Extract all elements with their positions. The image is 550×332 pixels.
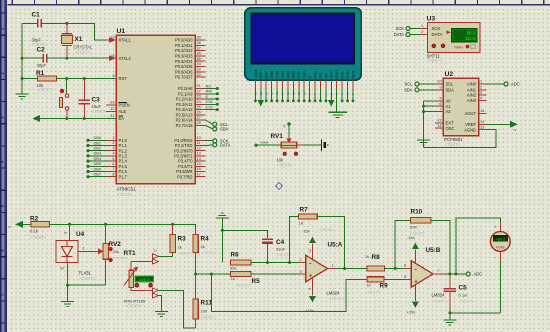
U1 pin P3.4 14 <box>178 156 205 164</box>
svg-text:<TEXT>: <TEXT> <box>365 290 381 295</box>
svg-text:9: 9 <box>112 73 114 78</box>
U5:A pin 2 stub <box>299 257 306 263</box>
svg-text:<TEXT>: <TEXT> <box>202 250 218 255</box>
shunt regulator U4 TL431 <box>56 224 96 281</box>
sensor U3 SHT11 <box>427 16 481 64</box>
svg-text:PSEN: PSEN <box>119 103 130 108</box>
svg-text:ref: ref <box>60 267 64 271</box>
svg-text:<TEXT>: <TEXT> <box>459 299 475 304</box>
resistor R9 <box>365 277 388 295</box>
junction R3 top on rail <box>171 223 174 226</box>
junction U4 ground node <box>66 284 69 287</box>
svg-text:CS1: CS1 <box>206 99 214 104</box>
svg-text:4: 4 <box>308 288 312 290</box>
svg-text:27: 27 <box>197 115 201 120</box>
svg-text:GND: GND <box>334 70 339 79</box>
svg-text:DB5: DB5 <box>274 71 279 79</box>
U2 pin A2 7 <box>435 106 451 114</box>
svg-text:R6: R6 <box>231 252 240 259</box>
terminal DATA at P3.1 <box>206 143 231 148</box>
svg-text:P0.0/AD0: P0.0/AD0 <box>175 38 193 43</box>
wire noninverting node to R9 <box>211 274 366 312</box>
svg-text:U1: U1 <box>117 28 126 35</box>
svg-text:V0: V0 <box>323 73 328 79</box>
U5:A output pin 1 <box>328 263 367 269</box>
ground below RT1 <box>155 312 168 317</box>
U1 pin P3.7 17 <box>177 171 205 179</box>
svg-text:R11: R11 <box>201 300 213 307</box>
junction button top on RST row <box>65 77 68 80</box>
junction A1 on ground bus <box>422 105 425 108</box>
U5:B power pin 11 arrow -15v <box>407 235 418 264</box>
svg-text:XTAL2: XTAL2 <box>119 56 132 61</box>
svg-text:U2: U2 <box>445 71 454 78</box>
svg-text:R5: R5 <box>252 278 261 285</box>
wire R7 feedback loop <box>290 217 345 269</box>
resistor R11 <box>193 299 216 328</box>
potentiometer RV2 <box>103 224 128 285</box>
LCD pin 18 RST <box>258 70 263 105</box>
svg-text:R4: R4 <box>201 236 210 243</box>
wire vout to RV1 left <box>254 140 278 147</box>
svg-text:C3: C3 <box>92 97 101 104</box>
svg-text:80.0: 80.0 <box>467 31 476 36</box>
U1 pin P2.5 26 <box>176 110 206 118</box>
ground below U4 <box>61 302 74 307</box>
svg-text:XTAL1: XTAL1 <box>119 38 132 43</box>
U1 pin P1.6 with net label DB6 <box>86 166 127 174</box>
svg-text:3: 3 <box>480 90 482 95</box>
svg-text:2: 2 <box>300 257 302 262</box>
svg-text:<TEXT>: <TEXT> <box>113 257 128 261</box>
svg-text:Volts: Volts <box>496 245 505 250</box>
U2 pin AIN1 2 <box>467 85 487 93</box>
svg-text:C4: C4 <box>276 239 285 246</box>
wire voltmeter return to ground <box>450 312 500 314</box>
rtd RT1 RTD-PT100 <box>124 250 155 309</box>
svg-text:21: 21 <box>197 83 201 88</box>
potentiometer RV1 <box>271 122 305 167</box>
left ruler <box>0 0 7 332</box>
U2 pin AIN3 4 <box>467 95 487 103</box>
wire top rail R2 to R4 <box>49 224 195 234</box>
resistor R7 feedback <box>299 207 318 226</box>
svg-text:P0.2/AD2: P0.2/AD2 <box>175 48 193 53</box>
junction crystal top <box>65 22 68 25</box>
U1 pin P1.3 with net label DB3 <box>86 151 127 159</box>
capacitor C3 <box>78 79 108 119</box>
svg-text:+: + <box>495 225 498 230</box>
U2 pin AGND 13 ground return wire <box>424 124 497 147</box>
RT1 terminal 2- wire to ground <box>152 293 161 311</box>
svg-text:<TEXT>: <TEXT> <box>126 304 142 309</box>
svg-text:P0.4/AD4: P0.4/AD4 <box>175 59 193 64</box>
svg-text:P2.2/A10: P2.2/A10 <box>176 97 194 102</box>
svg-text:<TEXT>: <TEXT> <box>320 227 336 232</box>
LCD pin 15 DB5 <box>274 71 279 102</box>
svg-text:DB2: DB2 <box>291 71 296 79</box>
LCD pin 8 R/W <box>312 71 317 102</box>
U1 pin P2.1 22 <box>178 88 219 96</box>
svg-text:RES: RES <box>350 70 355 78</box>
resistor R5 <box>231 271 261 287</box>
svg-text:-15v: -15v <box>302 229 310 234</box>
svg-text:C2: C2 <box>37 47 46 54</box>
svg-text:TL431: TL431 <box>79 271 92 276</box>
microcontroller U1 AT89C51 <box>116 28 195 197</box>
svg-text:CS1: CS1 <box>340 71 345 79</box>
LCD pin 2 CS2 <box>345 71 350 102</box>
LCD pin 5 VCC <box>329 70 334 105</box>
svg-text:P0.3/AD3: P0.3/AD3 <box>175 54 193 59</box>
U5:B power pin 4 arrow +15v <box>407 284 418 315</box>
svg-text:P2.7/A15: P2.7/A15 <box>176 123 194 128</box>
svg-text:11: 11 <box>437 123 441 128</box>
svg-text:ADC: ADC <box>474 272 483 277</box>
junction A2 on ground bus <box>422 110 425 113</box>
wire U4 anode to RV2 bottom and ground <box>68 263 106 302</box>
LCD pin 6 V0 <box>323 73 328 102</box>
svg-text:VCC: VCC <box>329 70 334 78</box>
U1 pin EA 31 <box>110 113 124 121</box>
svg-text:ALE: ALE <box>119 109 127 114</box>
svg-text:P2.3/A11: P2.3/A11 <box>176 102 193 107</box>
svg-text:30pF: 30pF <box>37 63 47 68</box>
svg-text:+15v: +15v <box>305 308 314 313</box>
svg-text:6: 6 <box>404 263 406 268</box>
wire C1 to XTAL1 <box>41 23 108 40</box>
svg-text:5: 5 <box>284 125 286 129</box>
svg-text:P0.6/AD6: P0.6/AD6 <box>175 69 193 74</box>
U5:B output pin 7 <box>433 268 466 274</box>
svg-text:23: 23 <box>197 94 201 99</box>
ground below U2 A pins <box>417 140 430 145</box>
junction R4 R5 node <box>194 273 197 276</box>
svg-text:1: 1 <box>421 23 423 28</box>
svg-text:X1: X1 <box>75 36 83 43</box>
svg-text:33uF: 33uF <box>276 247 286 252</box>
svg-text:LM324: LM324 <box>432 293 445 298</box>
svg-text:1: 1 <box>332 263 334 268</box>
svg-text:SDA: SDA <box>446 87 455 92</box>
terminal SDA at P2.7 <box>206 125 229 131</box>
svg-text:RST: RST <box>119 76 128 81</box>
capacitor C5 <box>444 274 475 313</box>
svg-text:5: 5 <box>439 96 441 101</box>
junction voltmeter branch on output row <box>454 273 457 276</box>
ground below LCD GND pin <box>328 112 347 117</box>
capacitor C4 electrolytic <box>262 239 292 263</box>
LCD pin 9 E <box>307 76 312 103</box>
svg-text:OSC: OSC <box>446 126 455 131</box>
svg-text:AOUT: AOUT <box>465 111 477 116</box>
svg-text:7: 7 <box>438 268 440 273</box>
LCD pin 1 RES <box>350 70 355 102</box>
svg-text:37: 37 <box>197 45 201 50</box>
U2 pin OSC 11 <box>435 123 454 131</box>
svg-text:AT89C51: AT89C51 <box>117 187 137 192</box>
junction ground to C4 wire <box>221 229 224 232</box>
svg-text:U5:A: U5:A <box>328 242 343 249</box>
svg-text:RT1: RT1 <box>124 250 137 257</box>
svg-text:C1: C1 <box>32 12 41 19</box>
push button <box>60 79 69 119</box>
crystal X1 <box>61 23 93 58</box>
svg-text:36: 36 <box>197 51 201 56</box>
U1 pin P1.1 with net label DB1 <box>86 140 127 148</box>
ground below left bus <box>16 79 29 100</box>
svg-text:U3: U3 <box>427 16 436 23</box>
svg-text:20k: 20k <box>113 249 119 254</box>
svg-text:SCK: SCK <box>396 26 405 31</box>
U5:B pin 6 stub <box>404 263 411 269</box>
U1 pin P3.3 13 <box>174 151 205 159</box>
junction C5 ground node <box>448 311 451 314</box>
svg-text:EXT: EXT <box>446 120 454 125</box>
LCD pin 16 DB6 <box>269 71 274 102</box>
svg-text:-15v: -15v <box>407 235 415 240</box>
svg-text:SCL: SCL <box>446 82 455 87</box>
svg-text:17: 17 <box>197 171 201 176</box>
svg-text:R3: R3 <box>178 236 187 243</box>
svg-text:P2.6/A14: P2.6/A14 <box>176 118 194 123</box>
svg-text:P0.1/AD1: P0.1/AD1 <box>175 43 193 48</box>
svg-text:R10: R10 <box>411 209 423 216</box>
svg-text:25: 25 <box>197 104 201 109</box>
svg-text:2k: 2k <box>201 244 205 249</box>
U1 pin P3.5 15 <box>178 161 205 169</box>
svg-text:1K: 1K <box>299 221 304 226</box>
U1 pin P1.0 with net label DB0 <box>86 135 127 143</box>
U1 pin P2.4 25 <box>176 104 219 112</box>
LCD module LCD1 graphic display <box>245 8 362 80</box>
LCD pin 13 DB3 <box>285 71 290 102</box>
svg-text:39: 39 <box>197 35 201 40</box>
svg-text:DB7: DB7 <box>264 71 269 79</box>
U1 pin P1.7 with net label DB7 <box>86 171 127 179</box>
svg-text:15: 15 <box>480 108 484 113</box>
wire A0 A1 A2 to ground <box>424 101 436 148</box>
svg-text:SDA: SDA <box>404 87 413 92</box>
U1 pin XTAL1 19 <box>106 35 131 43</box>
svg-text:<TEXT>: <TEXT> <box>201 315 217 320</box>
svg-text:RS: RS <box>206 83 212 88</box>
RT1 terminal 2+ wire to R11 bottom <box>131 287 196 328</box>
svg-text:1k: 1k <box>365 255 369 259</box>
svg-text:RS: RS <box>318 73 323 79</box>
voltmeter <box>456 218 510 313</box>
svg-text:7: 7 <box>439 106 441 111</box>
LCD pin 11 DB1 <box>296 71 301 102</box>
svg-text:A1: A1 <box>446 104 452 109</box>
U1 pin P1.5 with net label DB5 <box>86 161 127 169</box>
LCD pin 17 DB7 <box>264 71 269 102</box>
svg-text:18: 18 <box>110 53 114 58</box>
U5:A power pin 4 arrow +15v <box>305 278 315 313</box>
svg-text:<TEXT>: <TEXT> <box>427 58 443 63</box>
svg-text:1+: 1+ <box>154 249 158 253</box>
svg-text:DB4: DB4 <box>280 70 285 78</box>
resistor R2 <box>30 216 49 241</box>
op-amp U5:A LM324 <box>306 242 345 302</box>
junction C3 top on RST row <box>83 77 86 80</box>
wire R4 node to R5 to U5A pin3 <box>196 273 299 275</box>
svg-text:RST: RST <box>258 70 263 78</box>
LCD pin 10 DB0 <box>302 70 307 102</box>
svg-text:R8: R8 <box>372 254 381 261</box>
svg-text:P0.7/AD7: P0.7/AD7 <box>175 75 193 80</box>
junction C4 bottom on inverting row <box>266 261 269 264</box>
adc U2 PCF8591 <box>443 71 479 147</box>
U1 pin P1.4 with net label DB4 <box>86 156 127 164</box>
svg-text:AIN3: AIN3 <box>467 98 477 103</box>
svg-text:31: 31 <box>110 113 114 118</box>
junction at C2 row on left bus <box>21 57 24 60</box>
resistor R8 <box>365 254 384 271</box>
U5:A power pin 11 arrow -15v <box>302 227 336 259</box>
svg-text:9: 9 <box>439 85 441 90</box>
svg-text:DB3: DB3 <box>285 71 290 79</box>
svg-text:11: 11 <box>308 249 312 253</box>
LCD pin 19 -Vout <box>253 69 258 103</box>
svg-text:<TEXT>: <TEXT> <box>329 296 345 301</box>
wire C2 to XTAL2 <box>47 57 116 59</box>
svg-text:LM324: LM324 <box>327 291 340 296</box>
junction RV2 top on rail <box>104 223 107 226</box>
svg-text:<TEXT>: <TEXT> <box>236 283 252 288</box>
svg-text:35: 35 <box>197 56 201 61</box>
svg-text:U5:B: U5:B <box>426 247 441 254</box>
svg-text:<TEXT>: <TEXT> <box>178 251 194 256</box>
svg-text:E: E <box>307 76 312 79</box>
svg-text:26: 26 <box>197 110 201 115</box>
resistor R10 <box>410 209 431 236</box>
svg-text:DB7: DB7 <box>94 172 102 177</box>
U5:A pin 3 stub <box>299 269 306 275</box>
svg-text:0.1uf: 0.1uf <box>459 293 469 298</box>
junction C3 bottom on EA row <box>83 117 86 120</box>
svg-text:8: 8 <box>112 171 114 176</box>
svg-text:111.0: 111.0 <box>465 36 476 41</box>
svg-text:1: 1 <box>480 79 482 84</box>
U2 pin A0 5 <box>435 96 451 104</box>
svg-text:R9: R9 <box>380 283 389 290</box>
U2 pin VREF 14 with power arrow <box>465 119 517 131</box>
junction R7 branch on inverting row <box>288 261 291 264</box>
terminal arrow left of R2 <box>8 222 31 229</box>
svg-text:vout: vout <box>261 140 269 145</box>
U2 pin A1 6 <box>435 101 451 109</box>
svg-text:EA: EA <box>119 116 125 121</box>
resistor R3 <box>170 224 193 255</box>
svg-text:CS2: CS2 <box>345 71 350 79</box>
svg-text:<TEXT>: <TEXT> <box>433 299 449 304</box>
svg-text:38: 38 <box>197 40 201 45</box>
resistor R4 <box>193 234 217 299</box>
svg-text:6: 6 <box>439 101 441 106</box>
svg-text:33: 33 <box>197 67 201 72</box>
junction R10 to output row <box>448 273 451 276</box>
U1 pin P2.0 21 <box>178 83 219 91</box>
svg-text:+88.8: +88.8 <box>495 237 505 242</box>
terminal SCK at P3.0 <box>206 139 229 144</box>
U2 pin AOUT 15 <box>465 108 487 116</box>
ground below C5 <box>443 313 456 325</box>
svg-text:RV1: RV1 <box>271 133 284 140</box>
LCD pin 4 GND <box>334 70 339 112</box>
U2 pin AIN0 1 with terminal ADC <box>467 79 520 87</box>
svg-text:AGND: AGND <box>464 127 476 132</box>
U1 pin P2.2 23 <box>176 94 219 102</box>
LCD pin 14 DB4 <box>280 70 285 102</box>
svg-text:100.0: 100.0 <box>139 277 150 282</box>
svg-text:13: 13 <box>480 124 484 129</box>
svg-text:AIN0: AIN0 <box>467 82 477 87</box>
junction U4 top on rail <box>68 223 71 226</box>
ground symbol above C4 branch <box>216 213 229 263</box>
svg-text:AIN2: AIN2 <box>467 93 477 98</box>
U1 pin P0.2 37 <box>175 45 206 53</box>
junction R7 to output row <box>343 267 346 270</box>
svg-text:%RH: %RH <box>454 45 463 49</box>
svg-text:<TEXT>: <TEXT> <box>80 276 96 281</box>
svg-text:DB1: DB1 <box>296 71 301 79</box>
U1 pin P2.6 27 <box>176 115 206 123</box>
svg-text:SCL: SCL <box>405 82 414 87</box>
svg-text:R/W: R/W <box>312 71 317 79</box>
U2 pin EXT 12 <box>435 118 454 126</box>
U2 pin SCL 10 with terminal <box>405 79 455 87</box>
wire left vertical bus from C1 to R1 <box>21 23 23 78</box>
U2 pin AIN2 3 <box>467 90 487 98</box>
svg-text:CS2: CS2 <box>206 104 214 109</box>
svg-text:0.1k: 0.1k <box>30 229 39 234</box>
svg-text:ADC: ADC <box>511 82 520 87</box>
svg-text:A0: A0 <box>446 98 452 103</box>
U5:B pin 5 stub <box>404 274 411 280</box>
RT1 terminal 1+ wire to R3 bottom <box>152 249 172 259</box>
svg-text:<TEXT>: <TEXT> <box>117 192 133 197</box>
junction at R1 row on left bus <box>21 77 24 80</box>
wire R1 to RST <box>57 78 117 80</box>
LCD pin 3 CS1 <box>340 71 345 102</box>
svg-text:-Vout: -Vout <box>253 69 258 79</box>
top ruler <box>8 0 550 5</box>
U1 pin P1.2 with net label DB2 <box>86 145 127 153</box>
svg-text:P0.5/AD5: P0.5/AD5 <box>175 64 193 69</box>
svg-text:22: 22 <box>197 88 201 93</box>
resistor R1 <box>22 70 57 93</box>
svg-text:<TEXT>: <TEXT> <box>38 88 54 93</box>
junction R10 branch on pin6 row <box>394 267 397 270</box>
U1 pin PSEN 29 <box>106 100 130 108</box>
capacitor C1 <box>22 12 48 48</box>
junction crystal bottom <box>65 57 68 60</box>
terminal ADC at U5:B output <box>466 272 482 277</box>
junction button bottom on EA row <box>65 117 68 120</box>
svg-text:+15v: +15v <box>407 310 416 315</box>
U1 pin P0.3 36 <box>175 51 206 59</box>
svg-text:DATA: DATA <box>394 32 405 37</box>
svg-text:RW: RW <box>206 89 213 94</box>
svg-text:<TEXT>: <TEXT> <box>92 109 108 114</box>
origin marker diamond <box>276 183 283 190</box>
U2 pin SDA 9 with terminal <box>404 85 454 93</box>
svg-text:P2.1/A9: P2.1/A9 <box>178 91 193 96</box>
svg-text:69K: 69K <box>410 225 417 230</box>
U1 pin P0.1 38 <box>175 40 206 48</box>
U1 pin P2.7 28 <box>176 120 206 128</box>
